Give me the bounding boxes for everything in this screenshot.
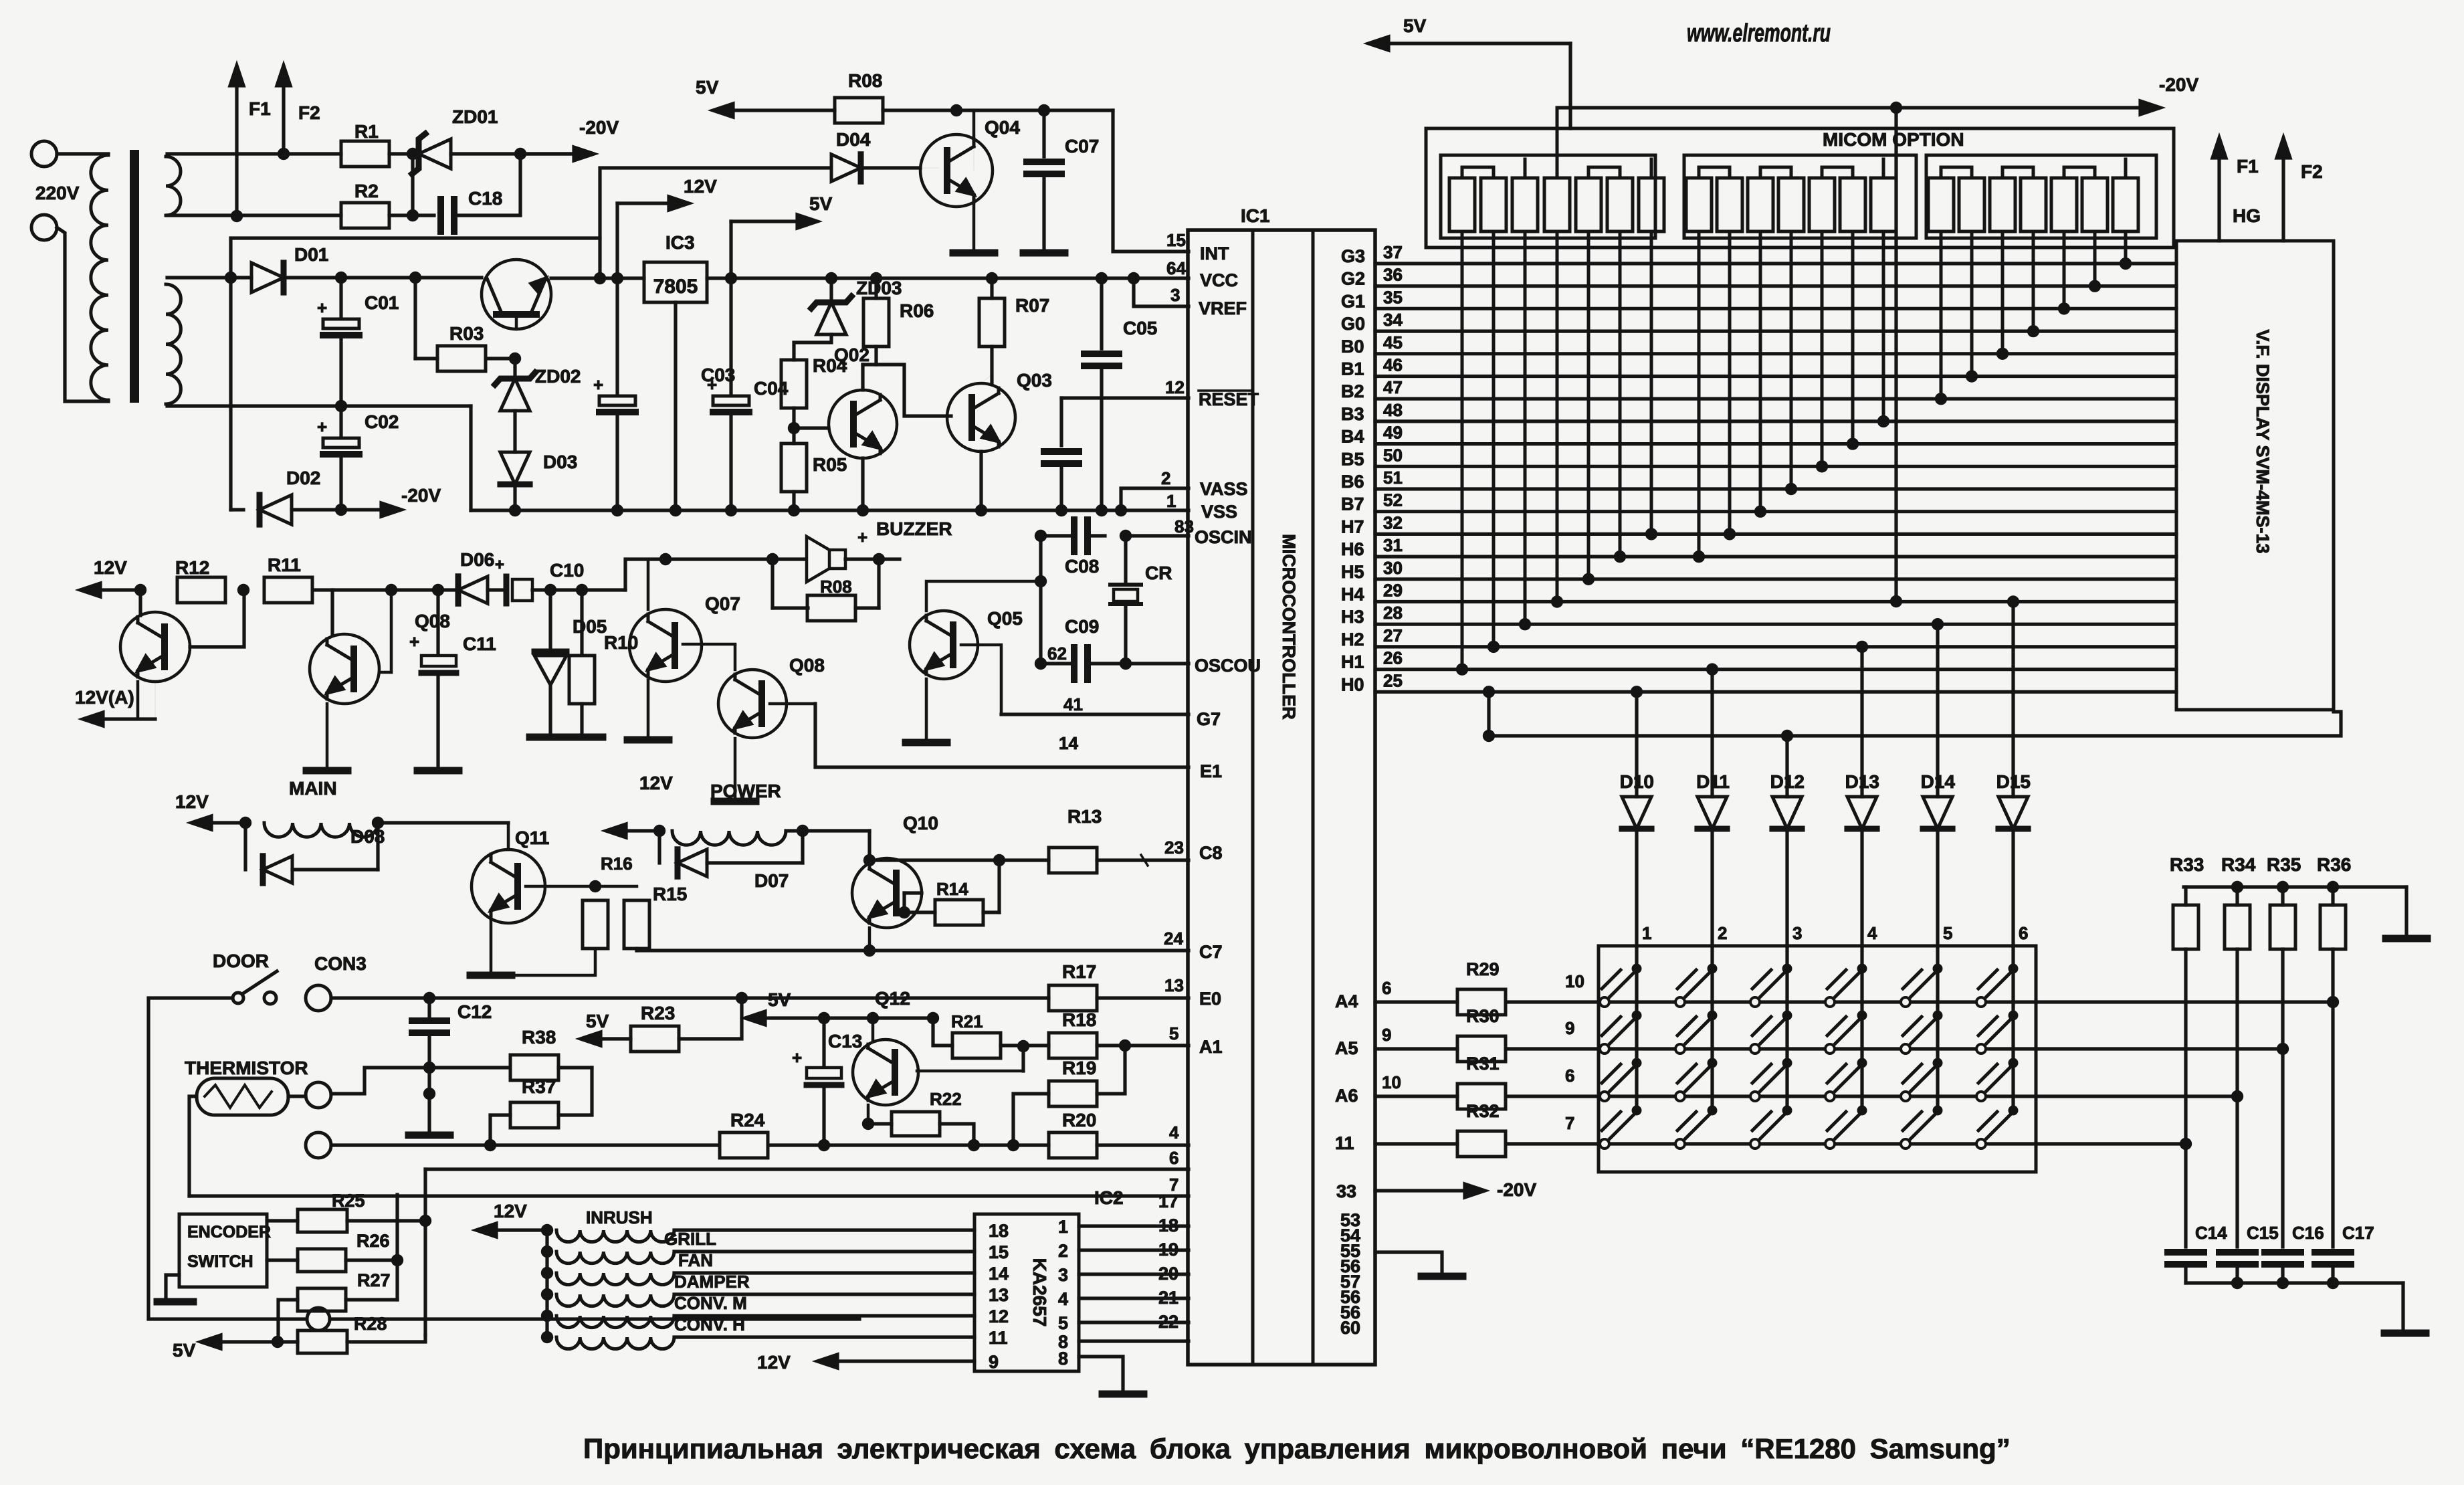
svg-text:R30: R30 — [1466, 1006, 1500, 1026]
svg-text:R07: R07 — [1015, 295, 1049, 316]
svg-text:46: 46 — [1383, 355, 1403, 375]
svg-text:IC3: IC3 — [665, 232, 695, 253]
svg-text:A5: A5 — [1335, 1038, 1358, 1058]
svg-text:47: 47 — [1383, 377, 1403, 397]
svg-text:25: 25 — [1383, 670, 1403, 690]
svg-text:28: 28 — [1383, 603, 1403, 623]
svg-text:R08: R08 — [848, 70, 882, 91]
svg-text:12V: 12V — [639, 773, 673, 793]
svg-text:19: 19 — [1158, 1240, 1178, 1260]
svg-text:60: 60 — [1340, 1318, 1360, 1338]
svg-text:R31: R31 — [1466, 1054, 1500, 1074]
svg-text:R18: R18 — [1062, 1009, 1096, 1030]
svg-text:36: 36 — [1383, 265, 1403, 285]
svg-text:B0: B0 — [1341, 336, 1364, 357]
svg-text:5V: 5V — [1403, 15, 1427, 36]
svg-text:H0: H0 — [1341, 674, 1364, 694]
svg-text:B3: B3 — [1341, 404, 1364, 424]
svg-text:33: 33 — [1336, 1181, 1356, 1201]
svg-text:R06: R06 — [900, 300, 934, 321]
svg-text:6: 6 — [1169, 1148, 1178, 1168]
svg-text:12V: 12V — [94, 557, 127, 578]
svg-text:R14: R14 — [936, 879, 968, 899]
svg-text:12: 12 — [989, 1306, 1009, 1326]
svg-text:RESET: RESET — [1199, 389, 1259, 409]
svg-text:DOOR: DOOR — [213, 951, 269, 971]
svg-text:R11: R11 — [268, 555, 301, 575]
svg-text:C7: C7 — [1199, 942, 1223, 962]
svg-text:THERMISTOR: THERMISTOR — [185, 1058, 308, 1078]
svg-text:Q04: Q04 — [985, 117, 1020, 138]
svg-text:4: 4 — [1058, 1289, 1068, 1309]
svg-text:+: + — [857, 527, 867, 547]
svg-text:14: 14 — [989, 1264, 1009, 1284]
svg-text:R35: R35 — [2267, 854, 2301, 875]
svg-text:4: 4 — [1169, 1122, 1179, 1143]
svg-text:HG: HG — [2233, 205, 2261, 226]
svg-text:64: 64 — [1166, 258, 1186, 278]
svg-text:-20V: -20V — [579, 117, 619, 138]
svg-text:Q08: Q08 — [415, 611, 450, 631]
svg-text:VREF: VREF — [1199, 298, 1247, 318]
svg-text:5V: 5V — [768, 989, 791, 1010]
svg-text:52: 52 — [1383, 490, 1403, 510]
svg-text:IC1: IC1 — [1241, 205, 1270, 226]
svg-text:49: 49 — [1383, 423, 1403, 443]
svg-text:Q07: Q07 — [705, 593, 740, 614]
svg-text:11: 11 — [1335, 1133, 1354, 1153]
svg-text:R38: R38 — [522, 1027, 556, 1048]
svg-text:E0: E0 — [1199, 989, 1221, 1009]
svg-text:ENCODER: ENCODER — [187, 1223, 271, 1242]
svg-text:D04: D04 — [836, 129, 871, 150]
svg-text:F2: F2 — [2301, 161, 2323, 182]
svg-text:C12: C12 — [457, 1001, 492, 1022]
svg-text:34: 34 — [1383, 310, 1403, 330]
svg-text:R16: R16 — [601, 854, 633, 874]
svg-text:R2: R2 — [354, 181, 379, 201]
svg-text:45: 45 — [1383, 332, 1403, 353]
svg-text:5V: 5V — [173, 1340, 196, 1361]
svg-text:R24: R24 — [730, 1110, 765, 1130]
svg-text:18: 18 — [1158, 1215, 1178, 1235]
svg-text:C10: C10 — [550, 560, 584, 581]
svg-text:Q05: Q05 — [987, 608, 1023, 629]
svg-text:Принципиальная электрическая: Принципиальная электрическая схема блока… — [583, 1433, 2011, 1464]
svg-text:11: 11 — [989, 1328, 1008, 1348]
svg-text:R29: R29 — [1466, 959, 1500, 979]
svg-text:F1: F1 — [249, 98, 271, 119]
svg-text:R12: R12 — [175, 557, 209, 578]
svg-text:B5: B5 — [1341, 449, 1364, 469]
svg-text:D12: D12 — [1770, 771, 1805, 792]
svg-text:+: + — [593, 375, 603, 395]
svg-text:V.F. DISPLAY SVM-4MS-13: V.F. DISPLAY SVM-4MS-13 — [2253, 329, 2273, 553]
svg-text:CON3: CON3 — [314, 953, 367, 974]
svg-text:H6: H6 — [1341, 539, 1364, 559]
svg-text:10: 10 — [1565, 971, 1584, 991]
svg-text:12V: 12V — [684, 176, 717, 197]
svg-text:62: 62 — [1047, 643, 1067, 664]
svg-text:41: 41 — [1063, 694, 1083, 714]
svg-text:G2: G2 — [1341, 269, 1365, 289]
svg-text:R08: R08 — [820, 577, 852, 597]
svg-text:R19: R19 — [1062, 1058, 1096, 1078]
svg-text:D03: D03 — [543, 452, 577, 472]
svg-text:R10: R10 — [604, 632, 638, 653]
svg-text:Q10: Q10 — [903, 813, 938, 833]
svg-text:Q03: Q03 — [1017, 370, 1052, 391]
svg-text:H3: H3 — [1341, 607, 1364, 627]
svg-text:R20: R20 — [1062, 1110, 1096, 1130]
svg-text:B4: B4 — [1341, 427, 1364, 447]
svg-text:5V: 5V — [586, 1011, 609, 1031]
svg-text:R22: R22 — [930, 1089, 962, 1109]
svg-text:MICROCONTROLLER: MICROCONTROLLER — [1279, 534, 1299, 719]
svg-text:FAN: FAN — [678, 1250, 713, 1270]
svg-text:10: 10 — [1382, 1072, 1401, 1092]
svg-text:DAMPER: DAMPER — [674, 1272, 750, 1292]
svg-text:H4: H4 — [1341, 585, 1364, 605]
svg-text:R25: R25 — [332, 1191, 365, 1211]
svg-text:www.elremont.ru: www.elremont.ru — [1687, 19, 1831, 47]
svg-text:5V: 5V — [809, 193, 833, 214]
svg-text:30: 30 — [1383, 558, 1403, 578]
svg-text:R21: R21 — [951, 1011, 983, 1031]
svg-text:-20V: -20V — [1497, 1179, 1536, 1200]
svg-text:220V: 220V — [35, 183, 80, 203]
svg-text:MICOM OPTION: MICOM OPTION — [1823, 129, 1964, 150]
svg-text:ZD02: ZD02 — [535, 366, 581, 387]
svg-text:27: 27 — [1383, 625, 1403, 646]
svg-text:37: 37 — [1383, 242, 1403, 262]
svg-text:C8: C8 — [1199, 843, 1223, 863]
svg-text:CONV. M: CONV. M — [674, 1293, 747, 1313]
svg-text:C11: C11 — [463, 633, 496, 654]
svg-text:7805: 7805 — [653, 276, 698, 298]
svg-text:9: 9 — [1382, 1025, 1391, 1045]
svg-text:BUZZER: BUZZER — [876, 518, 952, 539]
svg-text:C13: C13 — [828, 1031, 862, 1052]
svg-text:B2: B2 — [1341, 381, 1364, 401]
svg-text:A1: A1 — [1199, 1037, 1223, 1057]
svg-text:31: 31 — [1383, 535, 1403, 555]
svg-text:B7: B7 — [1341, 494, 1364, 514]
svg-text:KA2657: KA2657 — [1029, 1258, 1050, 1327]
svg-text:R26: R26 — [356, 1231, 390, 1251]
svg-text:C17: C17 — [2342, 1223, 2374, 1243]
svg-text:GRILL: GRILL — [664, 1229, 716, 1249]
svg-text:C16: C16 — [2292, 1223, 2324, 1243]
svg-text:B6: B6 — [1341, 472, 1364, 492]
svg-text:2: 2 — [1058, 1241, 1068, 1261]
svg-text:D11: D11 — [1696, 771, 1730, 792]
svg-text:CONV. H: CONV. H — [674, 1314, 745, 1334]
svg-text:INT: INT — [1200, 243, 1229, 264]
svg-text:VASS: VASS — [1200, 479, 1248, 499]
svg-text:G0: G0 — [1341, 314, 1365, 334]
svg-text:D10: D10 — [1620, 771, 1654, 792]
svg-text:6: 6 — [1382, 978, 1391, 998]
svg-text:5: 5 — [1169, 1023, 1178, 1044]
svg-text:C15: C15 — [2247, 1223, 2279, 1243]
svg-text:H5: H5 — [1341, 562, 1364, 582]
svg-text:20: 20 — [1158, 1264, 1178, 1284]
svg-text:G3: G3 — [1341, 246, 1365, 266]
svg-text:14: 14 — [1059, 733, 1078, 753]
svg-text:83: 83 — [1174, 516, 1194, 536]
svg-text:1: 1 — [1166, 491, 1176, 511]
svg-text:24: 24 — [1164, 928, 1183, 949]
svg-text:D01: D01 — [294, 244, 328, 265]
svg-text:C14: C14 — [2195, 1223, 2227, 1243]
svg-text:5V: 5V — [696, 77, 719, 98]
svg-text:C02: C02 — [365, 411, 399, 432]
svg-text:D13: D13 — [1845, 771, 1879, 792]
svg-text:+: + — [409, 631, 419, 652]
svg-text:D07: D07 — [754, 870, 789, 891]
svg-text:MAIN: MAIN — [289, 778, 337, 799]
svg-text:4: 4 — [1867, 923, 1877, 943]
svg-text:+: + — [317, 298, 327, 318]
svg-text:OSCIN: OSCIN — [1195, 527, 1252, 547]
svg-text:Q12: Q12 — [875, 988, 910, 1009]
svg-text:A6: A6 — [1335, 1086, 1358, 1106]
svg-text:12V: 12V — [757, 1352, 791, 1373]
svg-text:-20V: -20V — [2159, 74, 2198, 95]
svg-text:R32: R32 — [1466, 1101, 1500, 1121]
svg-text:C05: C05 — [1123, 318, 1157, 338]
svg-text:IC2: IC2 — [1094, 1187, 1124, 1208]
svg-text:6: 6 — [2019, 923, 2028, 943]
svg-text:15: 15 — [1166, 230, 1186, 250]
svg-text:-20V: -20V — [401, 485, 441, 506]
svg-text:G1: G1 — [1341, 291, 1365, 311]
svg-text:5: 5 — [1058, 1313, 1068, 1333]
svg-text:R28: R28 — [354, 1314, 387, 1334]
svg-text:R34: R34 — [2221, 854, 2256, 875]
svg-text:VCC: VCC — [1200, 270, 1238, 290]
svg-text:D06: D06 — [460, 549, 494, 570]
svg-text:R23: R23 — [641, 1003, 675, 1023]
svg-text:R03: R03 — [449, 323, 484, 344]
svg-text:R1: R1 — [354, 121, 379, 142]
svg-text:3: 3 — [1058, 1265, 1068, 1285]
svg-text:CR: CR — [1145, 563, 1172, 583]
svg-text:C07: C07 — [1065, 136, 1099, 157]
svg-text:7: 7 — [1169, 1175, 1178, 1195]
svg-text:R37: R37 — [522, 1076, 556, 1097]
svg-text:21: 21 — [1158, 1288, 1178, 1308]
svg-text:+: + — [792, 1048, 802, 1068]
svg-text:12: 12 — [1165, 377, 1185, 397]
svg-text:INRUSH: INRUSH — [586, 1207, 653, 1227]
svg-text:B1: B1 — [1341, 359, 1364, 379]
svg-text:2: 2 — [1718, 923, 1727, 943]
svg-text:Q08: Q08 — [789, 655, 825, 676]
svg-text:D15: D15 — [1996, 771, 2031, 792]
svg-text:F2: F2 — [298, 102, 320, 123]
svg-text:32: 32 — [1383, 512, 1403, 532]
svg-text:+: + — [495, 556, 504, 574]
svg-text:29: 29 — [1383, 581, 1403, 601]
svg-text:H1: H1 — [1341, 652, 1364, 672]
svg-text:D08: D08 — [350, 826, 385, 847]
svg-text:15: 15 — [989, 1242, 1009, 1262]
svg-text:C04: C04 — [754, 378, 789, 399]
svg-text:35: 35 — [1383, 287, 1403, 307]
svg-text:9: 9 — [989, 1352, 999, 1372]
svg-text:8: 8 — [1058, 1349, 1068, 1369]
svg-text:12V: 12V — [494, 1201, 527, 1221]
svg-text:18: 18 — [989, 1221, 1009, 1241]
svg-text:C08: C08 — [1065, 556, 1099, 577]
svg-text:7: 7 — [1565, 1113, 1574, 1133]
svg-text:ZD03: ZD03 — [856, 278, 902, 298]
svg-text:12V(A): 12V(A) — [75, 687, 134, 708]
svg-text:G7: G7 — [1197, 709, 1221, 729]
svg-text:F1: F1 — [2237, 156, 2259, 177]
svg-text:OSCOU: OSCOU — [1195, 656, 1261, 676]
svg-text:2: 2 — [1161, 468, 1170, 488]
svg-text:R27: R27 — [357, 1270, 391, 1290]
svg-text:SWITCH: SWITCH — [187, 1252, 253, 1271]
svg-text:13: 13 — [989, 1285, 1009, 1305]
svg-text:ZD01: ZD01 — [452, 106, 498, 127]
svg-text:R13: R13 — [1067, 806, 1102, 827]
svg-text:C09: C09 — [1065, 616, 1099, 637]
svg-text:D02: D02 — [286, 468, 320, 488]
svg-text:C18: C18 — [468, 188, 502, 209]
svg-text:22: 22 — [1158, 1312, 1178, 1332]
svg-text:R17: R17 — [1062, 961, 1096, 982]
svg-text:6: 6 — [1565, 1066, 1574, 1086]
svg-text:+: + — [317, 417, 327, 437]
svg-text:+: + — [707, 375, 717, 395]
svg-text:R33: R33 — [2170, 854, 2204, 875]
svg-text:VSS: VSS — [1201, 502, 1237, 522]
svg-text:R05: R05 — [813, 454, 847, 475]
svg-text:1: 1 — [1642, 923, 1651, 943]
svg-text:D05: D05 — [573, 616, 607, 637]
svg-text:R15: R15 — [653, 884, 687, 904]
svg-text:9: 9 — [1565, 1018, 1574, 1038]
svg-text:48: 48 — [1383, 400, 1403, 420]
svg-text:H7: H7 — [1341, 516, 1364, 536]
svg-text:23: 23 — [1164, 837, 1184, 858]
svg-text:3: 3 — [1170, 285, 1180, 305]
svg-text:H2: H2 — [1341, 629, 1364, 650]
svg-text:Q11: Q11 — [515, 827, 549, 848]
svg-text:5: 5 — [1943, 923, 1952, 943]
svg-text:R36: R36 — [2317, 854, 2351, 875]
svg-text:3: 3 — [1792, 923, 1802, 943]
svg-text:13: 13 — [1164, 975, 1184, 995]
svg-text:26: 26 — [1383, 648, 1403, 668]
svg-text:D14: D14 — [1921, 771, 1956, 792]
svg-text:1: 1 — [1058, 1217, 1068, 1237]
svg-text:C01: C01 — [365, 292, 399, 313]
svg-text:12V: 12V — [175, 791, 209, 812]
svg-text:E1: E1 — [1200, 761, 1222, 781]
svg-text:A4: A4 — [1335, 991, 1358, 1011]
svg-text:50: 50 — [1383, 445, 1403, 465]
svg-text:51: 51 — [1383, 468, 1403, 488]
